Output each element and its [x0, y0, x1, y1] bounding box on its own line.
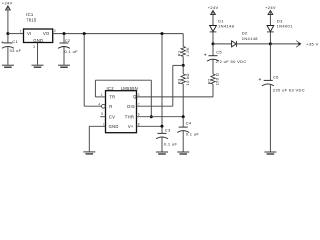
svg-text:TR: TR	[109, 95, 115, 100]
diode D3 1N4001	[267, 19, 293, 32]
svg-text:+24V: +24V	[2, 1, 13, 6]
wire: rail down to 555 V+ pin 8	[161, 34, 163, 127]
pin 5 CV stub	[100, 116, 105, 118]
wire R3 down to THR node	[182, 84, 184, 117]
svg-text:2: 2	[54, 29, 56, 33]
node junction TR tie / THR line	[150, 115, 153, 118]
ground under C1	[2, 65, 14, 68]
wire +24V to D3	[269, 11, 271, 26]
svg-text:1.5K: 1.5K	[185, 47, 190, 57]
svg-text:8: 8	[138, 122, 140, 126]
wire node A to R3	[182, 65, 184, 74]
wire: rail left segment to IC1 pin VI	[8, 33, 24, 35]
svg-text:IC1: IC1	[26, 12, 34, 17]
svg-text:C6: C6	[273, 74, 279, 79]
svg-text:1N4001: 1N4001	[277, 24, 294, 29]
wire: +15V rail from IC1 VO to R1 corner	[53, 33, 184, 35]
wire and arrow to +35V output	[270, 41, 318, 48]
wire: TR pin 2 tie to THR	[95, 80, 151, 117]
svg-text:Q: Q	[133, 94, 137, 99]
capacitor C3 0.1uF	[156, 126, 177, 151]
wire: Q pin 3 output to R2	[137, 84, 214, 97]
node A junction R1/R3/DIS	[182, 64, 185, 67]
svg-text:6: 6	[138, 112, 140, 116]
resistor R2 150	[206, 73, 219, 86]
svg-text:1N4148: 1N4148	[218, 24, 235, 29]
capacitor C1 33uF	[1, 34, 21, 65]
ground under IC1	[32, 65, 44, 68]
ground under C6	[264, 152, 276, 155]
diode D1 1N4148	[210, 19, 235, 32]
svg-text:2.2 uF 50 VDC: 2.2 uF 50 VDC	[216, 59, 247, 64]
svg-text:R3: R3	[177, 78, 182, 84]
wire from +24V down to rail	[7, 6, 9, 34]
node junction D3/C6/+35V	[269, 42, 272, 45]
ground under C4	[177, 152, 189, 155]
svg-text:+24V: +24V	[208, 5, 219, 10]
svg-text:+24V: +24V	[265, 5, 276, 10]
capacitor C5 2.2uF	[204, 44, 247, 74]
wire: rail corner down to R1	[182, 34, 184, 47]
wire IC1 GND pin down to ground	[37, 43, 39, 65]
voltage regulator IC1 7815	[20, 12, 56, 49]
svg-text:GND: GND	[33, 38, 43, 43]
svg-text:C2: C2	[65, 38, 71, 43]
svg-text:DIS: DIS	[127, 104, 135, 109]
svg-text:0.1 uF: 0.1 uF	[65, 49, 79, 54]
svg-text:THR: THR	[125, 114, 134, 119]
ground under C2	[58, 65, 70, 68]
svg-text:C4: C4	[186, 120, 192, 125]
capacitor C4 0.1uF	[177, 117, 199, 152]
svg-text:IC2: IC2	[107, 86, 115, 91]
wire: V+ pin 8 to +15V drop	[137, 125, 163, 127]
svg-text:+35 V: +35 V	[306, 42, 318, 47]
svg-text:R: R	[109, 104, 112, 109]
svg-text:5: 5	[101, 112, 103, 116]
wire: THR pin 6 line to C4	[137, 116, 184, 118]
wire: rail down to 555 reset pin 4	[84, 34, 101, 107]
node junction D1/C5/D2	[212, 42, 215, 45]
svg-text:3: 3	[33, 45, 35, 49]
wire: DIS pin 7 to vertical	[137, 105, 173, 107]
svg-text:C1: C1	[12, 39, 18, 44]
svg-text:3: 3	[138, 93, 140, 97]
svg-text:4: 4	[98, 102, 100, 106]
capacitor C6 220uF	[259, 44, 305, 152]
svg-text:V+: V+	[128, 124, 134, 129]
svg-text:0.1 uF: 0.1 uF	[186, 131, 200, 136]
resistor R3 10K	[177, 73, 190, 85]
node junction rail / V+ branch	[161, 32, 164, 35]
wire R1 to node A	[182, 57, 184, 66]
node junction rail / reset branch	[83, 32, 86, 35]
svg-text:VO: VO	[43, 31, 50, 36]
svg-text:C5: C5	[216, 49, 222, 54]
svg-text:7815: 7815	[26, 18, 37, 23]
svg-text:33 uF: 33 uF	[10, 48, 22, 53]
node junction THR / C4 / R3	[182, 115, 185, 118]
inversion bubble on reset pin 4	[102, 104, 106, 108]
svg-text:220 uF 63 VDC: 220 uF 63 VDC	[273, 87, 305, 92]
svg-text:0.1 uF: 0.1 uF	[164, 141, 178, 146]
svg-text:150 Ω: 150 Ω	[215, 73, 220, 86]
wire: charge node to D2	[213, 43, 232, 45]
resistor R1 1.5K	[177, 46, 190, 56]
supply +24V symbol (left)	[2, 1, 13, 10]
wire: 555 GND pin 1 to ground	[89, 126, 105, 151]
svg-text:R1: R1	[177, 50, 182, 56]
timer IC2 LM555N	[98, 86, 139, 133]
ground under C3	[156, 152, 168, 155]
wire D2 to +35V rail	[237, 43, 271, 45]
svg-text:D2: D2	[242, 30, 248, 35]
node junction V+ / C3	[161, 125, 164, 128]
wire +24V to D1	[212, 11, 214, 26]
wire D3 down to +35V rail	[269, 32, 271, 44]
svg-text:VI: VI	[27, 31, 31, 36]
svg-text:R2: R2	[206, 78, 211, 84]
svg-text:GND: GND	[109, 124, 119, 129]
diode D2 1N4148	[232, 30, 259, 47]
node junction rail / C2	[63, 32, 66, 35]
svg-text:1N4148: 1N4148	[242, 36, 259, 41]
svg-text:C3: C3	[165, 127, 171, 132]
svg-text:CV: CV	[109, 114, 115, 119]
capacitor C2 0.1uF	[58, 34, 78, 65]
svg-text:2: 2	[101, 93, 103, 97]
supply +24V symbol (middle, D1)	[208, 5, 219, 15]
svg-text:10 kΩ: 10 kΩ	[185, 73, 190, 85]
wire D1 to charge node	[212, 32, 214, 44]
supply +24V symbol (right, D3)	[265, 5, 276, 15]
wire: node A to DIS vertical	[173, 65, 183, 106]
svg-text:LM555N: LM555N	[121, 86, 138, 91]
node junction at C1 / rail	[6, 32, 9, 35]
ground under 555	[83, 151, 95, 154]
svg-text:1: 1	[20, 30, 22, 34]
